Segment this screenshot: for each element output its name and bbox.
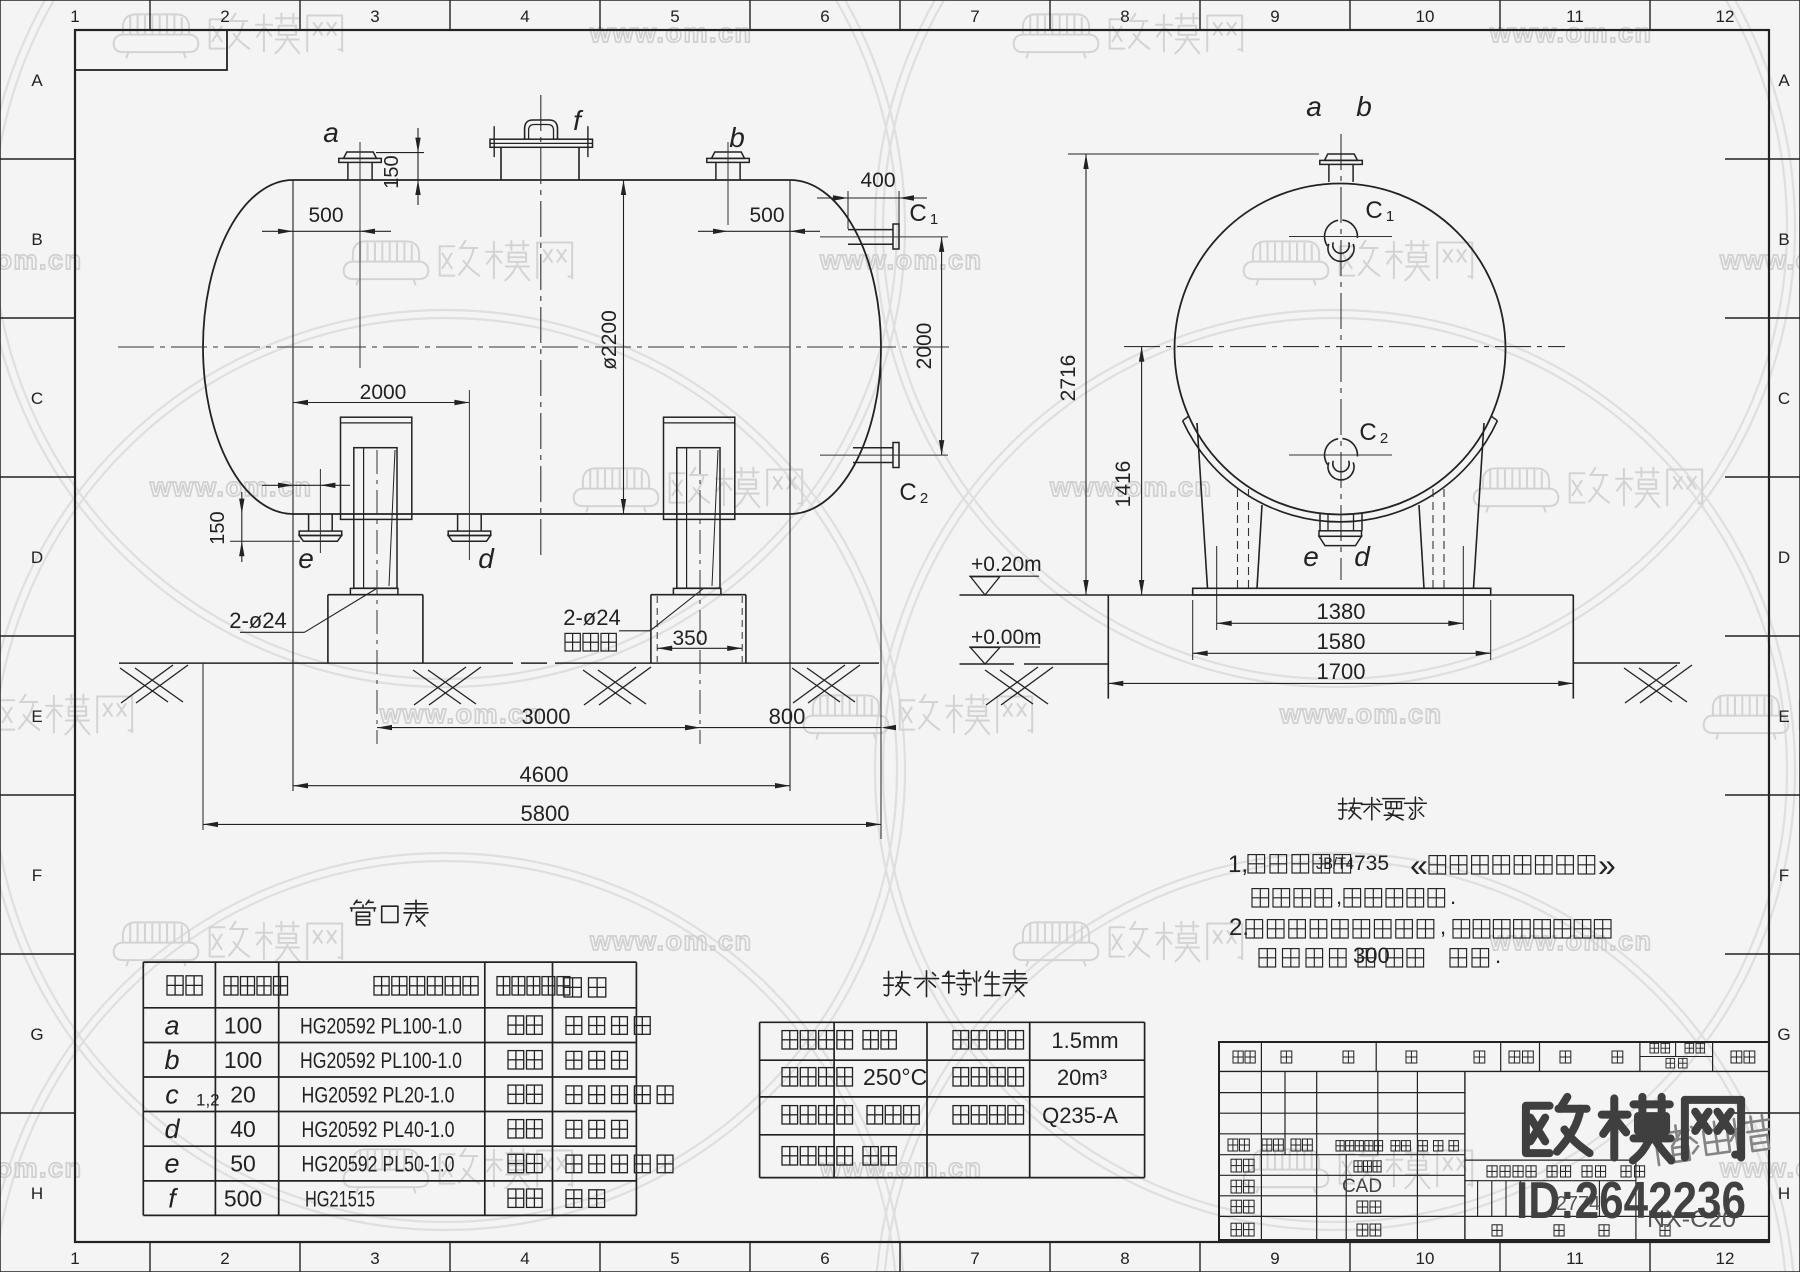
svg-text:ø2200: ø2200 (598, 310, 621, 370)
svg-text:10: 10 (1416, 1249, 1435, 1268)
dark site watermark (1526, 1097, 1590, 1153)
saddle base plate (673, 588, 721, 594)
svg-text:CAD: CAD (1342, 1176, 1382, 1197)
svg-text:500: 500 (749, 204, 784, 227)
dim 500 (b to right seam) (698, 230, 820, 232)
dim 150 (nozzle a projection) (376, 152, 424, 154)
svg-text:20m³: 20m³ (1057, 1065, 1107, 1090)
manhole f (500, 148, 502, 181)
svg-text:www.om.cn: www.om.cn (819, 245, 983, 275)
svg-text:6: 6 (820, 7, 829, 26)
title block right area (1465, 1159, 1636, 1161)
svg-text:20: 20 (230, 1082, 256, 1108)
svg-text:1700: 1700 (1317, 659, 1366, 684)
svg-text:2-ø24: 2-ø24 (229, 608, 286, 633)
ground hatches (121, 665, 173, 703)
svg-text:F: F (1779, 866, 1789, 885)
svg-text:1: 1 (70, 1249, 79, 1268)
svg-text:www.om.cn: www.om.cn (1279, 699, 1443, 729)
corner revision block (75, 30, 227, 70)
svg-text:G: G (1777, 1025, 1790, 1044)
tank shell side view (293, 179, 790, 181)
svg-text:7: 7 (970, 1249, 979, 1268)
svg-text:4: 4 (520, 7, 529, 26)
svg-text:250°C: 250°C (863, 1064, 927, 1090)
title block outer (1219, 1042, 1769, 1240)
svg-text:1,2: 1,2 (196, 1091, 220, 1110)
svg-text:www.om.cn: www.om.cn (819, 1153, 983, 1183)
tech characteristics title (884, 971, 911, 995)
svg-text:e: e (298, 543, 314, 574)
svg-text:9: 9 (1270, 7, 1279, 26)
svg-text:9: 9 (1270, 1249, 1279, 1268)
nozzle e (308, 514, 310, 532)
svg-text:ID:2642236: ID:2642236 (1516, 1172, 1746, 1230)
saddle base plate (350, 588, 398, 594)
svg-text:4600: 4600 (520, 762, 569, 787)
svg-text:d: d (1354, 541, 1371, 572)
nozzle table title (350, 900, 375, 925)
svg-text:11: 11 (1566, 1249, 1584, 1268)
svg-text:.: . (1450, 884, 1456, 909)
svg-text:,: , (1440, 914, 1446, 939)
svg-text:b: b (1356, 91, 1372, 122)
svg-text:735: 735 (1354, 852, 1389, 875)
svg-text:a: a (164, 1010, 179, 1040)
svg-text:d: d (164, 1114, 180, 1144)
svg-text:5800: 5800 (521, 801, 570, 826)
nozzle a (344, 152, 377, 158)
top nozzle a/b end view (1325, 154, 1358, 160)
dim 1416 (1141, 347, 1143, 595)
svg-text:e: e (1303, 541, 1319, 572)
svg-text:500: 500 (224, 1185, 262, 1211)
svg-text:10: 10 (1416, 7, 1435, 26)
nozzle table grid (143, 961, 636, 963)
svg-text:5: 5 (670, 1249, 679, 1268)
svg-text:www.om.cn: www.om.cn (0, 1153, 83, 1183)
svg-text:.: . (1495, 943, 1501, 968)
svg-text:7: 7 (970, 7, 979, 26)
foundation end view (1108, 594, 1573, 596)
svg-text:C: C (31, 389, 43, 408)
svg-text:1: 1 (930, 211, 938, 228)
dim seam-to-e (262, 484, 350, 486)
dim 1380 (1216, 546, 1218, 630)
svg-text:F: F (32, 866, 42, 885)
svg-text:3: 3 (370, 1249, 379, 1268)
ground line left view (119, 662, 879, 664)
saddle cradle band (1183, 421, 1498, 522)
ground lines end view (1573, 662, 1680, 664)
title block lower verticals (1260, 1155, 1262, 1240)
svg-text:100: 100 (224, 1047, 262, 1073)
tank vertical centerline (540, 95, 542, 560)
svg-text:1380: 1380 (1317, 599, 1366, 624)
svg-text:50: 50 (230, 1151, 256, 1177)
dim 2716 (1068, 153, 1319, 155)
svg-text:3: 3 (370, 7, 379, 26)
svg-text:1.5mm: 1.5mm (1051, 1028, 1118, 1053)
nozzle C2 side (853, 447, 893, 449)
dim phi2200 (623, 180, 625, 514)
drawing title (oil tank) (1650, 1113, 1773, 1167)
svg-text:C: C (1778, 389, 1790, 408)
title block upper grid verticals (1260, 1071, 1262, 1154)
nozzle b (712, 152, 745, 158)
svg-text:1416: 1416 (1112, 461, 1135, 508)
dim 500 (a from left seam) (262, 230, 391, 232)
svg-text:100: 100 (224, 1012, 262, 1038)
title block row labels (1228, 1139, 1238, 1151)
title block horizontal lines (1219, 1070, 1769, 1072)
svg-text:C: C (909, 200, 926, 227)
svg-text:8: 8 (1120, 1249, 1129, 1268)
svg-text:1: 1 (1386, 208, 1394, 225)
dim 2000 (C1-C2 vertical) (941, 237, 943, 455)
svg-text:«: « (1410, 847, 1428, 883)
svg-text:1: 1 (70, 7, 79, 26)
dim 150 (e projection) (241, 492, 243, 562)
svg-text:+0.20m: +0.20m (971, 553, 1042, 576)
dim 3000 (377, 727, 700, 729)
svg-text:2: 2 (220, 7, 229, 26)
svg-text:HG20592 PL20-1.0: HG20592 PL20-1.0 (302, 1083, 455, 1108)
svg-text:D: D (1778, 548, 1790, 567)
svg-text:C: C (899, 479, 916, 506)
svg-text:12: 12 (1716, 1249, 1735, 1268)
svg-text:6: 6 (820, 1249, 829, 1268)
svg-text:350: 350 (672, 627, 707, 650)
saddle support (664, 417, 735, 519)
svg-text:2: 2 (920, 490, 928, 507)
svg-text:4: 4 (520, 1249, 529, 1268)
svg-text:www.om.cn: www.om.cn (0, 245, 83, 275)
svg-text:HG20592 PL40-1.0: HG20592 PL40-1.0 (302, 1117, 455, 1142)
foundation pedestal (651, 594, 746, 596)
svg-text:HG21515: HG21515 (305, 1186, 375, 1211)
dim 400 (817, 197, 927, 199)
svg-text:12: 12 (1716, 7, 1735, 26)
nozzle C1 side (848, 229, 893, 231)
svg-text:H: H (1778, 1184, 1790, 1203)
svg-text:a: a (323, 117, 339, 148)
tank horizontal centerline (118, 346, 952, 348)
watermark logo rows (114, 14, 199, 57)
svg-text:H: H (31, 1184, 43, 1203)
svg-text:400: 400 (860, 169, 895, 192)
svg-text:A: A (31, 71, 43, 90)
head seam lines / 4600 extension lines (292, 180, 294, 791)
tech requirements title (1339, 798, 1362, 819)
svg-text:b: b (729, 122, 745, 153)
saddle legs end view (1197, 423, 1208, 588)
svg-text:2-ø24: 2-ø24 (563, 605, 620, 630)
svg-text:500: 500 (308, 204, 343, 227)
svg-text:b: b (164, 1045, 179, 1075)
svg-text:d: d (478, 543, 495, 574)
svg-text:C: C (1365, 197, 1382, 224)
svg-text:c: c (165, 1080, 179, 1110)
svg-text:8: 8 (1120, 7, 1129, 26)
svg-text:1580: 1580 (1317, 629, 1366, 654)
svg-text:»: » (1598, 847, 1616, 883)
svg-text:B: B (1778, 230, 1789, 249)
svg-text:3000: 3000 (522, 704, 571, 729)
svg-text:www.om.cn: www.om.cn (589, 926, 753, 956)
svg-text:D: D (31, 548, 43, 567)
svg-text:800: 800 (769, 704, 806, 729)
tank end view circle (1175, 184, 1506, 515)
dim 1700 (1108, 682, 1573, 684)
C2 symbol (1325, 439, 1339, 465)
svg-text:E: E (31, 707, 42, 726)
dim 5800 (203, 823, 881, 825)
saddle centerlines (376, 450, 378, 744)
svg-text:www.om.cn: www.om.cn (1719, 245, 1800, 275)
svg-text:www.om.cn: www.om.cn (149, 472, 313, 502)
svg-text:150: 150 (381, 155, 403, 188)
dim 350 (657, 647, 742, 649)
watermark background arcs (0, 0, 905, 687)
end view horizontal centerline (1124, 346, 1565, 348)
svg-text:A: A (1778, 71, 1790, 90)
svg-text:2716: 2716 (1057, 355, 1080, 402)
svg-text:a: a (1306, 91, 1322, 122)
bottom nozzle e/d end view (1319, 513, 1321, 531)
C1 symbol (1325, 220, 1339, 246)
nozzle d (457, 514, 459, 532)
svg-text:2000: 2000 (913, 323, 936, 370)
svg-text:1,: 1, (1228, 851, 1248, 878)
svg-text:JB/T4: JB/T4 (1316, 854, 1354, 873)
end view vertical centerline (1340, 134, 1342, 580)
dim 1580 (1192, 600, 1194, 660)
tech characteristics rows (782, 1031, 798, 1049)
svg-text:2: 2 (220, 1249, 229, 1268)
svg-text:40: 40 (230, 1116, 256, 1142)
svg-text:HG20592 PL100-1.0: HG20592 PL100-1.0 (300, 1013, 462, 1038)
slot dashed lines right pedestal (656, 596, 658, 662)
dim 800 (700, 727, 881, 729)
title block header texts (1233, 1051, 1243, 1063)
saddle support (341, 417, 412, 519)
tech characteristics grid (760, 1021, 1145, 1023)
svg-text:E: E (1778, 707, 1789, 726)
svg-text:300: 300 (1353, 943, 1390, 968)
svg-text:G: G (30, 1025, 43, 1044)
svg-text:e: e (164, 1149, 179, 1179)
svg-text:11: 11 (1566, 7, 1584, 26)
svg-text:150: 150 (207, 511, 229, 544)
svg-text:C: C (1359, 419, 1376, 446)
svg-text:,: , (1336, 884, 1342, 909)
svg-text:Q235-A: Q235-A (1042, 1103, 1118, 1128)
svg-text:2000: 2000 (360, 381, 407, 404)
svg-text:+0.00m: +0.00m (971, 626, 1042, 649)
svg-text:B: B (31, 230, 42, 249)
svg-text:2: 2 (1380, 430, 1388, 447)
svg-text:5: 5 (670, 7, 679, 26)
nozzle table header (167, 976, 183, 995)
svg-text:HG20592 PL50-1.0: HG20592 PL50-1.0 (302, 1152, 455, 1177)
dim 2000 (horizontal, seam to d) (293, 402, 469, 404)
title block header verticals (1260, 1042, 1262, 1071)
base plate end view (1193, 588, 1491, 595)
dim 4600 (293, 785, 790, 787)
foundation pedestal (328, 594, 423, 596)
svg-text:HG20592 PL100-1.0: HG20592 PL100-1.0 (300, 1048, 462, 1073)
5800 extension lines (202, 663, 204, 830)
